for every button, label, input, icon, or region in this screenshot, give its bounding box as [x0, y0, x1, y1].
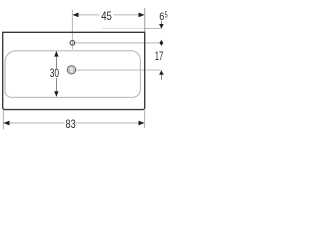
dimension 30: top up arrowhead	[54, 51, 58, 57]
dimension 17: up arrowhead	[159, 70, 164, 75]
basin outer outline	[3, 32, 145, 109]
wire: extension line C (drain centerline to right)	[67, 69, 161, 71]
wire: vertical extension line through tap hole (45 dim left)	[71, 10, 73, 50]
dimension 83: right arrowhead	[139, 121, 145, 126]
svg-text:5: 5	[165, 10, 168, 19]
dimension 6.5/17: diamond (arrowheads tip to tip)	[160, 40, 164, 46]
dimension 30: lower shaft	[55, 78, 57, 91]
drain / overflow outer ring	[67, 66, 75, 74]
dimension 45: right arrowhead	[139, 13, 145, 18]
wire: 83 dim right extension line	[144, 110, 146, 128]
svg-text:30: 30	[50, 67, 60, 80]
dimension 17: shaft below arrow	[160, 75, 162, 80]
dimension 6.5: down arrowhead	[159, 24, 164, 29]
svg-text:17: 17	[155, 50, 164, 63]
tap hole	[70, 40, 75, 45]
bowl inner outline	[5, 51, 140, 98]
dimension 30: bottom down arrowhead	[54, 91, 58, 97]
wire: extension line A (rear reference, 6.5 dim top)	[102, 28, 145, 30]
dimension 45: line segments	[73, 14, 99, 16]
wire: 83 dim left extension line	[2, 110, 4, 129]
svg-text:83: 83	[66, 117, 76, 131]
svg-text:45: 45	[101, 9, 112, 23]
dimension 45: left arrowhead	[73, 13, 79, 18]
drain / overflow inner ring	[69, 67, 74, 72]
wire: extension line B (tap hole centerline to right)	[72, 42, 161, 44]
dimension 6.5: shaft above arrow	[160, 21, 162, 25]
dimension 30: upper shaft	[55, 57, 57, 69]
dimension 83: left arrowhead	[4, 121, 10, 126]
dimension 83: line segments	[4, 122, 65, 124]
wire: vertical extension line at basin right edge (45 dim right)	[144, 8, 146, 32]
